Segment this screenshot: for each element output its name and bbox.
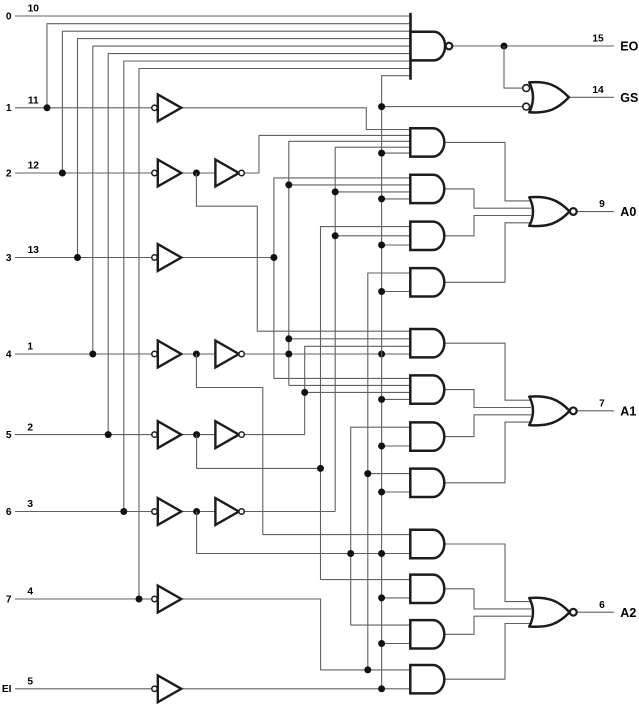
inverter row EI [158,675,182,702]
wire I1 inverter output to AND G1 input 1 [181,108,410,130]
node input 7 junction [136,596,143,603]
wire I6 between inverters row 6 [181,511,215,513]
node EI-bar source junction [378,685,385,692]
wire I6 vertical G7 to G11 [351,427,411,625]
inverter row 5 [158,421,182,448]
wire buffered-5 vertical to AND G5 input 3 [305,346,411,434]
wire AND G6 output to NOR A1 [444,390,531,408]
AND gate G4 [410,268,444,296]
node input 3 junction [74,254,81,261]
svg-text:4: 4 [6,349,12,360]
svg-text:A0: A0 [620,205,636,219]
svg-text:5: 5 [27,677,33,688]
wire I2 down to AND G5 input 1 [196,173,410,331]
wire I4 between inverters row 4 [181,353,215,355]
node I7 tap G8 [364,470,371,477]
inverter input bubble row 2 [152,170,157,175]
wire AND G9 output to NOR A2 [444,544,531,602]
AND gate G2 [410,175,444,203]
inverter input bubble row 6 [152,509,157,514]
svg-text:4: 4 [27,587,33,598]
buffer inverter row 5 [215,421,239,448]
svg-text:1: 1 [27,342,33,353]
wire A0 output line [577,211,614,213]
wire AND G2 output to NOR A0 [444,189,531,208]
node I4 junction [193,351,200,358]
inverter input bubble row 1 [152,105,157,110]
node EI-bar tap [378,242,385,249]
wire A2 output line [577,611,614,613]
svg-text:7: 7 [599,398,605,409]
wire riser input 7 to NAND [139,69,411,600]
node EI-bar tap [378,150,385,157]
wire AND G5 output to NOR A1 [444,343,531,400]
wire buffered-5 stub to AND G6 input 3 [305,391,411,393]
wire EI-bar inverter output to AND G12 input 2 [181,688,410,690]
node EI-bar tap G5 [378,351,385,358]
wire buffered-6 stub to AND G2 input 3 [335,191,410,193]
input EI line [15,688,152,690]
node I6 junction [193,508,200,515]
AND gate G3 [410,222,444,250]
buffer inverter output bubble row 5 [239,432,244,437]
svg-text:6: 6 [599,600,605,611]
node EI-bar tap [378,443,385,450]
AND gate G7 [410,422,444,450]
NOR gate A1 [529,396,569,425]
wire AND G1 output to NOR A0 [444,142,531,201]
AND gate G9 [410,530,444,558]
svg-text:3: 3 [6,253,12,264]
node input 6 junction [120,508,127,515]
wire EO to GS gate input 1 [504,46,523,88]
wire AND G12 output to NOR A2 [444,624,531,680]
wire EI-bar stub to gate input [382,445,411,447]
wire I5 vertical G3 to G10 [321,227,411,580]
buffer inverter row 6 [215,498,239,525]
node input 2 junction [59,170,66,177]
node input 5 junction [105,431,112,438]
svg-text:2: 2 [6,168,12,179]
svg-text:A2: A2 [620,606,636,620]
wire riser input 1 to NAND [47,24,411,108]
svg-text:14: 14 [592,85,604,96]
inverter input bubble row 5 [152,432,157,437]
inverter input bubble row 3 [152,255,157,260]
wire buffered-6 stub to AND G3 input 2 [335,235,410,237]
node EI-bar tap [378,288,385,295]
node I5 junction [193,431,200,438]
wire AND G3 output to NOR A0 [444,216,531,236]
inverter row 2 [158,160,182,187]
input 4 line [15,353,152,355]
wire I3 inverter output [181,257,274,259]
svg-text:11: 11 [28,96,39,107]
AND gate G6 [410,375,444,403]
node input 1 junction [44,104,51,111]
wire EI-bar stub to gate input [382,244,411,246]
input 3 line [15,257,152,259]
wire buffered-4 vertical to AND G1 input 3 [289,141,411,385]
svg-text:12: 12 [28,161,40,172]
node EI-bar tap [378,195,385,202]
node EI-bar tap GS [378,103,385,110]
wire I7 vertical G4 to G12 junction [368,273,411,670]
wire riser input 2 to NAND [62,31,410,173]
wire AND G10 output to NOR A2 [444,589,531,609]
svg-text:EI: EI [2,684,12,695]
NOR gate A2 output bubble [570,609,577,616]
wire EO output line [452,45,614,47]
wire AND G11 output to NOR A2 [444,616,531,634]
wire I3 up to AND G2 input 1 [274,178,410,258]
node input 4 junction [89,351,96,358]
wire I6 down to AND G9 input 2 [197,512,411,554]
node buffered-6 tap G2 [332,188,339,195]
node I5 tap junction [317,465,324,472]
wire EI-bar stub to gate input [382,643,411,645]
node buffered-4 tap G5 [285,335,292,342]
GS input bubble 2 [523,103,530,110]
AND gate G8 [410,469,444,497]
AND gate G11 [410,620,444,648]
wire EI-bar main vertical to NAND [382,76,411,689]
wire I7 inverter output to AND G12 input 1 [181,599,410,670]
wire GS output line [569,96,614,98]
buffer inverter output bubble row 2 [239,170,244,175]
NOR gate A2 [529,598,569,627]
node EI-bar tap [378,396,385,403]
wire riser input 5 to NAND [108,54,410,435]
wire buffered-2 output up to AND G1 input 2 [244,135,410,173]
wire EI-bar stub to gate input [382,398,411,400]
wire I3 down to AND G6 input 1 [274,258,410,379]
input 2 line [15,172,152,174]
node I6 tap junction [347,550,354,557]
svg-text:10: 10 [28,4,40,15]
wire AND G4 output to NOR A0 [444,223,531,282]
NAND gate EO [411,32,446,61]
node EI-bar tap [378,594,385,601]
GS input bubble 1 [523,85,530,92]
NOR gate A0 output bubble [570,208,577,215]
svg-text:EO: EO [620,40,638,54]
svg-text:2: 2 [27,422,33,433]
svg-text:7: 7 [6,594,12,605]
wire EI-bar stub to gate input [382,198,411,200]
node EI-bar tap [378,489,385,496]
wire EI-bar stub to gate input [382,491,411,493]
wire riser input 6 to NAND [124,61,411,512]
wire EI-bar to GS gate input 2 [382,106,523,108]
node I2 junction [193,170,200,177]
wire buffered-4 to AND G6 input 2 [289,384,411,386]
input 6 line [15,511,152,513]
node EI-bar tap [378,640,385,647]
inverter input bubble row 4 [152,351,157,356]
NOR gate A1 output bubble [570,407,577,414]
node buffered-4 tap G2 [285,181,292,188]
AND gate G1 [410,128,444,156]
NOR gate A0 [529,197,569,226]
AND gate G5 [410,329,444,357]
wire I2 between inverters row 2 [181,172,215,174]
inverter row 1 [158,94,182,121]
NAND gate EO input bar [409,13,412,80]
wire AND G8 output to NOR A1 [444,422,531,483]
input 5 line [15,434,152,436]
wire EI-bar stub to gate input [382,291,411,293]
wire I5 between inverters row 5 [181,434,215,436]
svg-text:9: 9 [599,199,605,210]
node EI-bar tap G9 row [378,550,385,557]
svg-text:5: 5 [6,430,12,441]
inverter input bubble row EI [152,686,157,691]
svg-text:6: 6 [6,507,12,518]
inverter row 3 [158,244,182,271]
OR gate GS [529,82,569,112]
buffer inverter row 2 [215,160,239,187]
wire buffered-4 output line to AND G5 input 4 [244,353,410,355]
node buffered-4 source junction [285,351,292,358]
svg-text:3: 3 [27,499,33,510]
svg-text:15: 15 [592,34,604,45]
wire buffered-5 output to vertical [244,434,304,436]
inverter row 7 [158,586,182,613]
node buffered-5 tap G6 [301,389,308,396]
wire riser input 4 to NAND [93,46,411,354]
NAND gate EO output bubble [446,43,453,50]
wire EI-bar stub to gate input [382,152,411,154]
input 7 line [15,598,152,600]
wire I4 down to AND G9 input 1 [196,354,410,535]
inverter input bubble row 7 [152,596,157,601]
node buffered-6 tap G3 [332,232,339,239]
wire AND G7 output to NOR A1 [444,415,531,437]
buffer inverter row 4 [215,341,239,368]
wire buffered-6 output to vertical [244,511,335,513]
svg-text:0: 0 [6,11,12,22]
wire buffered-4 stub to AND G5 input 2 [289,338,411,340]
wire EI-bar stub to gate input [382,597,411,599]
node I3 junction [270,254,277,261]
svg-text:A1: A1 [620,404,636,418]
inverter row 6 [158,498,182,525]
AND gate G10 [410,575,444,603]
wire A1 output line [577,410,614,412]
svg-text:GS: GS [620,91,638,105]
AND gate G12 [410,665,444,693]
node I7 join G12 line [364,666,371,673]
wire I7 stub to AND G8 input 1 [368,473,411,475]
wire buffered-4 stub to AND G2 input 2 [289,184,411,186]
buffer inverter output bubble row 4 [239,351,244,356]
wire buffered-6 vertical to AND G1 input 4 [335,147,410,511]
wire riser input 3 to NAND [78,39,411,258]
wire I5 down then long vertical [197,435,321,469]
input 1 line [15,107,152,109]
input 0 line [15,15,411,17]
svg-text:13: 13 [28,245,40,256]
buffer inverter output bubble row 6 [239,509,244,514]
node EO junction [501,43,508,50]
inverter row 4 [158,341,182,368]
svg-text:1: 1 [6,103,12,114]
